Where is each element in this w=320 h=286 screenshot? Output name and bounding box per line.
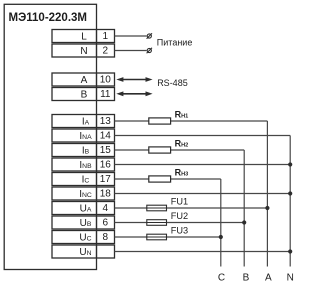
wire I phase row to load (row y=121.0) [115, 120, 268, 122]
svg-text:N: N [80, 46, 87, 57]
svg-text:2: 2 [103, 45, 109, 56]
resistor RН1 [149, 109, 188, 124]
wire INB (pin 16) to node N [115, 164, 291, 166]
svg-text:Питание: Питание [157, 38, 193, 48]
wire U phase row (FU3) [115, 236, 221, 238]
device outline МЭ110-220.3М body [4, 4, 96, 269]
terminal UN [52, 245, 115, 258]
svg-text:RS-485: RS-485 [157, 78, 188, 88]
terminal L pin 1 [52, 30, 115, 43]
terminal UC pin 8 [52, 231, 115, 244]
RS-485 double arrow (pin 11) [116, 91, 152, 96]
svg-text:18: 18 [100, 188, 112, 199]
svg-text:15: 15 [100, 145, 112, 156]
wire I phase row to load (row y=150.0) [115, 149, 245, 151]
terminal B pin 11 [52, 88, 115, 101]
node A vertical line [266, 121, 268, 267]
fuse FU1 [147, 197, 188, 211]
wire UN to node N [115, 251, 291, 253]
terminal IC pin 17 [52, 173, 115, 186]
svg-text:FU1: FU1 [171, 197, 188, 207]
terminal UA pin 4 [52, 202, 115, 215]
RS-485 double arrow (pin 10) [116, 77, 152, 82]
svg-text:МЭ110-220.3М: МЭ110-220.3М [9, 12, 88, 24]
resistor RН3 [149, 167, 188, 182]
svg-text:14: 14 [100, 130, 112, 141]
terminal IA pin 13 [52, 115, 115, 128]
wire from pin 1 to power connector [115, 35, 147, 37]
junction dot N x INB [288, 162, 292, 166]
wire INC (pin 18) to node N [115, 193, 291, 195]
wire INA (pin 14) to node N [115, 135, 291, 137]
svg-text:8: 8 [103, 232, 109, 243]
wire from pin 2 to power connector [115, 50, 147, 52]
svg-text:A: A [81, 75, 88, 86]
fuse FU3 [147, 226, 188, 240]
svg-text:6: 6 [103, 217, 109, 228]
terminal UB pin 6 [52, 216, 115, 229]
junction dot C x FU3 [219, 235, 223, 239]
svg-text:16: 16 [100, 159, 112, 170]
svg-text:13: 13 [100, 116, 112, 127]
svg-text:L: L [81, 32, 87, 43]
node N vertical line [289, 136, 291, 267]
svg-text:10: 10 [100, 74, 112, 85]
junction dot A x FU1 [265, 206, 269, 210]
junction dot B x FU2 [242, 220, 246, 224]
connector symbol (power pin 1) [147, 33, 152, 39]
terminal INA pin 14 [52, 129, 115, 142]
svg-text:FU3: FU3 [171, 226, 188, 236]
connector symbol (power pin 2) [147, 48, 152, 54]
svg-text:C: C [218, 272, 225, 283]
svg-text:FU2: FU2 [171, 211, 188, 221]
svg-text:17: 17 [100, 174, 112, 185]
wire U phase row (FU2) [115, 222, 245, 224]
terminal IB pin 15 [52, 144, 115, 157]
resistor RН2 [149, 138, 188, 153]
svg-text:4: 4 [103, 203, 109, 214]
terminal INB pin 16 [52, 158, 115, 171]
terminal A pin 10 [52, 73, 115, 86]
svg-text:A: A [265, 272, 272, 283]
svg-text:N: N [287, 272, 294, 283]
node B vertical line [243, 150, 245, 267]
svg-text:B: B [81, 90, 88, 101]
svg-text:B: B [243, 272, 250, 283]
node C vertical line [220, 179, 222, 267]
fuse FU2 [147, 211, 188, 225]
svg-text:1: 1 [103, 31, 109, 42]
junction dot N x UN [288, 249, 292, 253]
svg-text:11: 11 [100, 89, 111, 100]
junction dot N x INC [288, 191, 292, 195]
wire U phase row (FU1) [115, 207, 268, 209]
terminal INC pin 18 [52, 187, 115, 200]
terminal N pin 2 [52, 44, 115, 57]
wire I phase row to load (row y=179.0) [115, 178, 221, 180]
